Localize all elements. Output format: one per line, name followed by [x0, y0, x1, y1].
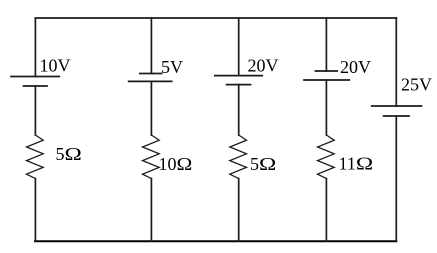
wire branch1 top — [34, 18, 36, 77]
svg-text:11Ω: 11Ω — [339, 154, 374, 174]
wire branch3 top — [238, 18, 240, 76]
resistor R1 5ohm — [27, 135, 44, 179]
svg-text:25V: 25V — [401, 75, 432, 95]
resistor R2 10ohm — [143, 135, 160, 179]
wire branch4 middle — [325, 80, 327, 135]
svg-text:20V: 20V — [340, 57, 371, 77]
battery V5 25V — [372, 106, 422, 116]
wire branch2 top — [150, 18, 152, 74]
svg-text:10V: 10V — [40, 55, 71, 75]
svg-text:5Ω: 5Ω — [250, 154, 276, 174]
wire branch4 bottom — [325, 179, 327, 242]
wire branch1 bottom — [34, 179, 36, 242]
battery V4 20V (reversed) — [304, 71, 349, 80]
svg-text:10Ω: 10Ω — [159, 154, 193, 174]
svg-text:5V: 5V — [161, 57, 183, 77]
battery V2 5V (reversed) — [129, 74, 172, 82]
battery V1 10V — [11, 77, 59, 87]
svg-text:20V: 20V — [248, 56, 279, 76]
svg-text:5Ω: 5Ω — [56, 144, 82, 164]
wire branch1 middle — [34, 86, 36, 135]
wire top bus — [35, 17, 396, 19]
resistor R3 5ohm — [230, 135, 247, 179]
wire branch3 bottom — [238, 179, 240, 242]
wire branch4 top — [325, 18, 327, 71]
resistor R4 11ohm — [318, 135, 335, 179]
battery V3 20V — [215, 76, 262, 85]
wire branch5 bottom — [395, 116, 397, 241]
wire bottom bus — [35, 240, 396, 242]
wire branch3 middle — [238, 85, 240, 135]
wire branch5 top (right side) — [395, 18, 397, 106]
wire branch2 bottom — [150, 179, 152, 242]
wire branch2 middle — [150, 81, 152, 135]
